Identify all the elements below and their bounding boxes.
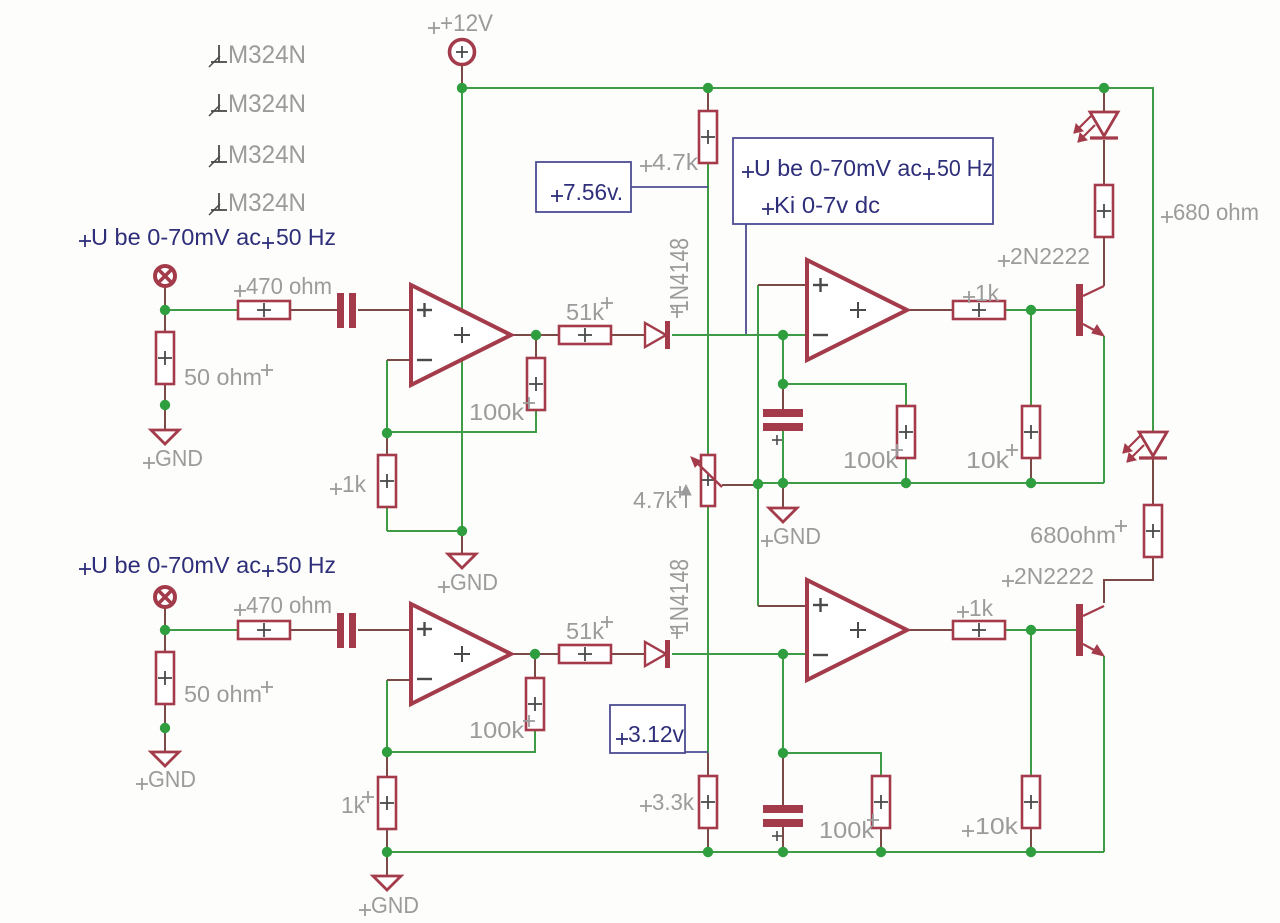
svg-text:GND: GND: [371, 892, 419, 918]
svg-text:M324N: M324N: [228, 41, 306, 69]
svg-text:470 ohm: 470 ohm: [246, 273, 332, 299]
svg-text:100k: 100k: [469, 399, 525, 425]
svg-text:10k: 10k: [975, 813, 1019, 839]
svg-text:50 Hz: 50 Hz: [937, 155, 993, 181]
svg-text:50 ohm: 50 ohm: [184, 364, 262, 390]
svg-text:1k: 1k: [341, 792, 365, 818]
svg-text:2N2222: 2N2222: [1010, 243, 1090, 269]
svg-text:100k: 100k: [469, 717, 525, 743]
svg-text:50 ohm: 50 ohm: [184, 681, 262, 707]
svg-text:100k: 100k: [843, 447, 899, 473]
svg-text:7.56v.: 7.56v.: [563, 179, 623, 205]
svg-text:10k: 10k: [966, 447, 1010, 473]
svg-text:U be 0-70mV ac: U be 0-70mV ac: [91, 552, 261, 578]
svg-text:4.7k: 4.7k: [652, 149, 699, 175]
svg-text:M324N: M324N: [228, 90, 306, 118]
svg-text:1k: 1k: [342, 471, 366, 497]
svg-text:2N2222: 2N2222: [1014, 563, 1094, 589]
svg-text:51k: 51k: [566, 618, 605, 644]
svg-text:680 ohm: 680 ohm: [1173, 199, 1259, 225]
svg-text:GND: GND: [450, 569, 498, 595]
svg-text:50 Hz: 50 Hz: [276, 224, 336, 250]
svg-text:1k: 1k: [969, 595, 993, 621]
svg-text:51k: 51k: [566, 299, 605, 325]
svg-text:U be 0-70mV ac: U be 0-70mV ac: [754, 155, 922, 181]
svg-text:50 Hz: 50 Hz: [276, 552, 336, 578]
svg-text:U be 0-70mV ac: U be 0-70mV ac: [91, 224, 261, 250]
svg-text:1N4148: 1N4148: [664, 238, 694, 312]
svg-text:GND: GND: [773, 523, 821, 549]
svg-text:100k: 100k: [819, 817, 875, 843]
svg-text:M324N: M324N: [228, 189, 306, 217]
svg-text:GND: GND: [155, 445, 203, 471]
svg-text:3.12v: 3.12v: [628, 721, 684, 747]
svg-text:3.3k: 3.3k: [652, 789, 694, 815]
svg-text:1k: 1k: [975, 280, 999, 306]
svg-text:GND: GND: [148, 766, 196, 792]
svg-text:1N4148: 1N4148: [664, 559, 694, 633]
svg-text:Ki 0-7v dc: Ki 0-7v dc: [774, 192, 880, 218]
svg-text:M324N: M324N: [228, 141, 306, 169]
svg-text:470 ohm: 470 ohm: [246, 592, 332, 618]
svg-text:680ohm: 680ohm: [1030, 522, 1116, 548]
svg-text:+12V: +12V: [440, 10, 493, 37]
svg-text:4.7k: 4.7k: [633, 487, 677, 513]
